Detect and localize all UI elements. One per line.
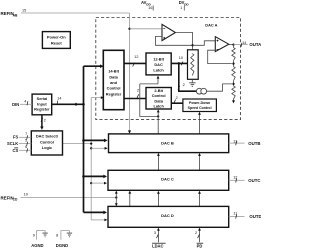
svg-text:Data: Data	[154, 98, 163, 103]
svg-text:Control: Control	[40, 139, 54, 144]
svg-text:DAC Select/: DAC Select/	[36, 134, 59, 139]
svg-text:AGND: AGND	[31, 243, 43, 248]
svg-text:Speed Control: Speed Control	[188, 106, 212, 110]
svg-text:PD: PD	[197, 243, 203, 248]
svg-text:Serial: Serial	[37, 96, 48, 101]
svg-text:5: 5	[25, 138, 27, 142]
svg-text:DAC C: DAC C	[161, 177, 174, 182]
svg-text:DIN: DIN	[12, 102, 19, 107]
svg-text:6: 6	[25, 145, 27, 149]
svg-text:Control: Control	[152, 93, 166, 98]
svg-text:AB: AB	[13, 13, 18, 17]
svg-text:Register: Register	[34, 107, 50, 112]
svg-text:12: 12	[134, 55, 138, 59]
svg-text:9: 9	[33, 233, 35, 237]
svg-text:2: 2	[176, 96, 178, 100]
svg-text:OUTA: OUTA	[249, 42, 261, 47]
svg-text:OUTC: OUTC	[248, 178, 260, 183]
svg-text:10: 10	[24, 192, 28, 196]
svg-text:DGND: DGND	[56, 243, 68, 248]
svg-text:12-Bit: 12-Bit	[153, 57, 165, 62]
svg-text:DD: DD	[184, 2, 189, 6]
svg-text:LDAC: LDAC	[152, 243, 163, 248]
svg-text:Power-Down: Power-Down	[189, 101, 210, 105]
svg-text:4: 4	[24, 100, 26, 104]
svg-text:Reset: Reset	[51, 40, 63, 45]
svg-text:2: 2	[44, 118, 46, 122]
svg-text:OUTD: OUTD	[249, 214, 261, 219]
svg-text:Power-On: Power-On	[47, 34, 66, 39]
svg-text:CD: CD	[13, 198, 18, 202]
svg-text:SCLK: SCLK	[7, 141, 18, 146]
svg-text:DAC: DAC	[154, 62, 163, 67]
svg-text:16: 16	[148, 6, 152, 10]
svg-text:OUTB: OUTB	[248, 141, 260, 146]
svg-text:2-Bit: 2-Bit	[154, 88, 163, 93]
svg-text:Data: Data	[109, 74, 118, 79]
svg-text:DAC B: DAC B	[161, 141, 174, 146]
svg-text:1: 1	[180, 6, 182, 10]
svg-text:15: 15	[22, 8, 26, 12]
svg-text:DAC A: DAC A	[205, 23, 217, 28]
svg-text:14-Bit: 14-Bit	[108, 69, 120, 74]
svg-text:and: and	[110, 80, 118, 85]
svg-text:14: 14	[242, 41, 246, 45]
svg-text:DAC D: DAC D	[161, 213, 174, 218]
svg-text:14: 14	[57, 96, 61, 100]
svg-text:3: 3	[154, 231, 156, 235]
svg-text:Control: Control	[107, 86, 121, 91]
svg-text:2: 2	[183, 83, 185, 87]
svg-text:Latch: Latch	[153, 67, 164, 72]
svg-text:FS: FS	[13, 135, 19, 140]
svg-text:10: 10	[179, 56, 183, 60]
svg-text:Latch: Latch	[153, 104, 164, 109]
svg-text:Logic: Logic	[42, 145, 53, 150]
svg-text:2: 2	[137, 89, 139, 93]
svg-text:Input: Input	[37, 101, 47, 106]
svg-text:2: 2	[195, 231, 197, 235]
svg-text:8: 8	[56, 233, 58, 237]
svg-text:7: 7	[25, 132, 27, 136]
svg-text:Register: Register	[106, 91, 122, 96]
svg-text:CS: CS	[13, 148, 19, 153]
